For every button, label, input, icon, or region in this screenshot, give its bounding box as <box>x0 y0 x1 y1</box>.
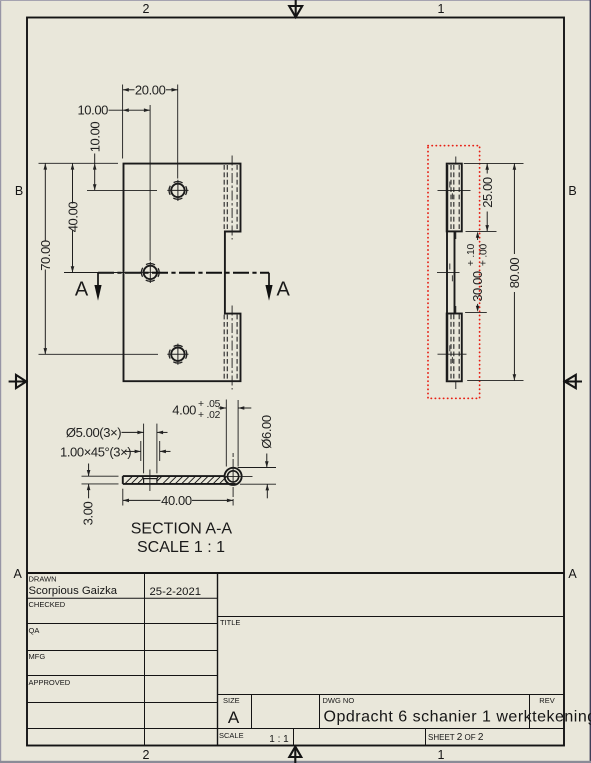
extension lines front view <box>39 85 178 355</box>
svg-text:+ .05: + .05 <box>198 399 221 410</box>
dimension 10.00 horizontal <box>109 109 151 111</box>
svg-text:70.00: 70.00 <box>38 240 53 271</box>
svg-text:TITLE: TITLE <box>220 618 240 627</box>
svg-text:QA: QA <box>29 626 40 635</box>
hole H1 top <box>167 180 188 201</box>
side hole centerline top <box>437 190 471 354</box>
right center marker <box>565 375 582 388</box>
diameter 6.00 dimension <box>238 468 276 485</box>
svg-text:APPROVED: APPROVED <box>29 678 71 687</box>
dimension 30.00 with tolerance <box>476 232 480 238</box>
svg-text:2: 2 <box>143 2 150 16</box>
svg-text:A: A <box>75 279 89 301</box>
svg-text:A: A <box>568 567 577 581</box>
plate outline <box>124 164 241 382</box>
lower knuckle hidden lines <box>224 315 237 381</box>
svg-text:Scorpious Gaizka: Scorpious Gaizka <box>29 585 118 597</box>
svg-text:SHEET 2 OF 2: SHEET 2 OF 2 <box>428 732 484 743</box>
left center marker <box>9 375 27 388</box>
svg-text:REV: REV <box>539 696 554 705</box>
svg-text:Opdracht 6 schanier 1 werkteke: Opdracht 6 schanier 1 werktekening <box>324 709 591 726</box>
svg-text:25.00: 25.00 <box>480 177 495 208</box>
dimension 40.00 <box>72 163 74 272</box>
svg-text:Ø5.00(3×): Ø5.00(3×) <box>66 425 121 440</box>
svg-text:1: 1 <box>438 2 445 16</box>
svg-text:30.00: 30.00 <box>470 271 485 302</box>
svg-text:4.00: 4.00 <box>172 402 196 417</box>
svg-text:3.00: 3.00 <box>81 501 96 525</box>
screen edge strips <box>0 0 1 763</box>
hole H2 middle <box>140 262 161 283</box>
svg-text:A: A <box>277 279 291 301</box>
dimension 70.00 <box>44 163 46 354</box>
lower knuckle centerline <box>231 306 233 390</box>
svg-text:+ .00: + .00 <box>479 243 490 266</box>
title block texts <box>29 575 591 746</box>
svg-text:40.00: 40.00 <box>65 202 80 233</box>
barrel <box>223 453 253 506</box>
dimension 3.00 <box>82 476 119 484</box>
svg-text:1 : 1: 1 : 1 <box>269 734 289 745</box>
svg-text:+ .10: + .10 <box>466 243 477 266</box>
svg-text:Ø6.00: Ø6.00 <box>259 415 274 449</box>
dimension 80.00 <box>513 164 515 381</box>
dimension 25.00 <box>486 164 488 232</box>
dimension 20.00 <box>123 89 178 91</box>
svg-text:1: 1 <box>438 748 445 762</box>
svg-text:B: B <box>568 184 576 198</box>
section line A-A <box>94 273 272 301</box>
side view outline <box>447 164 462 382</box>
bottom center marker <box>289 747 301 763</box>
svg-text:80.00: 80.00 <box>507 258 522 289</box>
svg-text:SCALE: SCALE <box>219 731 244 740</box>
svg-text:SCALE 1 : 1: SCALE 1 : 1 <box>137 539 225 556</box>
hole H3 bottom <box>167 344 188 365</box>
svg-text:DWG NO: DWG NO <box>323 696 355 705</box>
svg-text:40.00: 40.00 <box>161 493 192 508</box>
svg-text:SIZE: SIZE <box>223 696 240 705</box>
dimension 10.00 vertical <box>94 154 96 191</box>
side view extension lines <box>464 163 524 380</box>
svg-text:25-2-2021: 25-2-2021 <box>150 586 202 598</box>
svg-text:1.00×45°(3×): 1.00×45°(3×) <box>60 444 131 459</box>
title block lines <box>27 573 564 746</box>
svg-text:10.00: 10.00 <box>77 103 108 118</box>
side knuckle hidden lines upper <box>451 165 459 230</box>
bar hole edges <box>142 476 159 484</box>
svg-text:CHECKED: CHECKED <box>29 600 66 609</box>
chamfer 1.00x45 dimension <box>141 441 160 461</box>
svg-text:B: B <box>15 184 23 198</box>
upper knuckle centerline <box>231 156 233 240</box>
svg-text:+ .02: + .02 <box>198 410 221 421</box>
upper knuckle hidden lines <box>224 165 237 231</box>
top center marker <box>289 0 302 17</box>
side knuckle hidden lines lower <box>451 315 459 381</box>
svg-text:DRAWN: DRAWN <box>29 575 57 584</box>
bar outline <box>123 476 236 484</box>
svg-text:A: A <box>228 708 240 727</box>
svg-text:10.00: 10.00 <box>88 122 103 153</box>
red selection box <box>428 146 480 399</box>
side knuckle centerline upper <box>455 157 457 240</box>
svg-text:20.00: 20.00 <box>135 82 166 97</box>
side knuckle centerline lower <box>455 306 457 389</box>
svg-text:MFG: MFG <box>29 652 46 661</box>
hatch <box>125 476 227 483</box>
svg-text:A: A <box>14 567 23 581</box>
diameter 5.00 dimension <box>144 424 157 474</box>
svg-text:2: 2 <box>143 748 150 762</box>
svg-text:SECTION A-A: SECTION A-A <box>131 520 233 537</box>
side hole tick marks <box>450 182 453 364</box>
dimension 40.00 <box>122 489 124 506</box>
bar hole centerline <box>149 470 151 492</box>
4.00 tolerance dimension <box>226 400 238 467</box>
